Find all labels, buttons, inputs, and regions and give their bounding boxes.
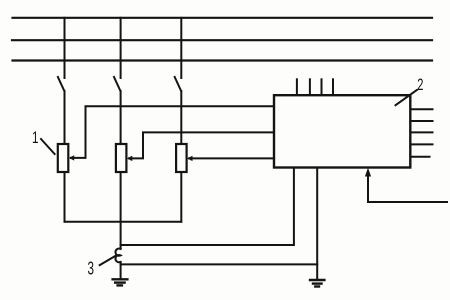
label 2 leader line [396,90,418,105]
wire wiper R3 to controller input [189,157,273,159]
wire drop phase 1 lower [64,91,66,144]
top pin 2 [309,79,311,94]
right pin 5 [411,156,430,158]
right pin 4 [411,143,433,145]
wire below R1 [64,172,66,222]
top pin 1 [296,79,298,94]
rheostat R3 [176,144,192,172]
bus line L3 [13,59,433,61]
wire below R2 to transformer [120,172,122,249]
ground G1 [113,279,128,285]
label 3 leader line [100,256,116,265]
top pin 4 [332,79,334,94]
wire transformer to ground [120,262,122,279]
rheostat R2 [116,144,132,172]
switch S1 blade [58,77,64,91]
wire feedback input [368,201,447,203]
wire drop phase 1 upper [64,18,66,78]
switch S3 blade [175,77,181,91]
wire wiper R1 to controller input [71,106,273,158]
svg-text:2: 2 [417,75,423,94]
wire drop phase 3 lower [180,91,182,144]
label 1 leader line [41,139,55,154]
wire pot bottoms common [65,221,182,223]
wire transformer bottom tap to ground node [121,263,318,265]
wire below R3 [180,172,182,222]
bus line L1 [13,17,433,19]
switch S2 blade [114,77,120,91]
right pin 3 [411,131,433,133]
top pin 3 [321,79,323,94]
svg-text:1: 1 [32,128,39,147]
right pin 1 [411,108,433,110]
wire drop phase 3 upper [180,18,182,78]
ground G2 [310,280,324,287]
svg-text:3: 3 [88,259,95,279]
wire drop phase 2 lower [120,91,122,144]
feedback arrow into controller bottom [365,168,371,202]
controller box U2 [274,95,410,167]
right pin 2 [411,120,433,122]
wire wiper R2 to controller input [129,132,273,158]
current transformer T3 winding [115,249,120,263]
bus line L2 [12,39,432,41]
wire drop phase 2 upper [120,18,122,78]
wire transformer top tap to controller [121,169,294,246]
wire controller bottom pin to ground [316,169,318,280]
rheostat R1 [58,144,74,172]
